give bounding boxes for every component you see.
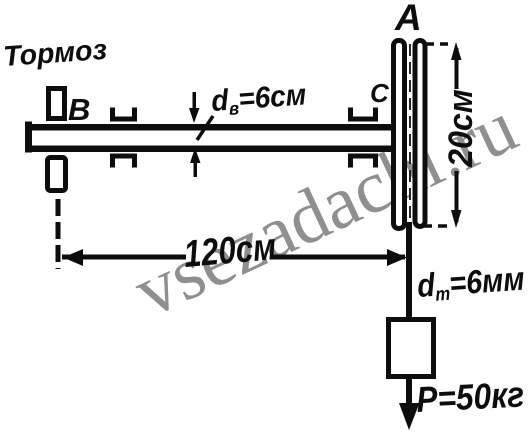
dim 20cm: bottom extension dash [423, 224, 448, 228]
load arrow shaft [406, 377, 412, 409]
brake pad lower [48, 158, 66, 191]
shaft diameter up arrow [194, 163, 198, 177]
bearing B upper bracket [113, 108, 135, 120]
load box [389, 320, 434, 377]
shaft top line [25, 124, 395, 131]
svg-text:120см: 120см [182, 226, 278, 275]
svg-text:20см: 20см [442, 89, 480, 168]
dim 20cm: top extension dash [425, 42, 448, 46]
pulley rim left [394, 41, 405, 229]
bearing B lower bracket [113, 156, 135, 168]
dim 120cm: right arrowhead [387, 249, 407, 266]
rope [406, 222, 412, 320]
dim 20cm: vertical dimension line [455, 48, 459, 89]
bearing C upper bracket [351, 108, 376, 120]
load arrow head [399, 403, 420, 430]
dim 20cm: bottom arrowhead [451, 210, 462, 228]
brake pad upper [49, 89, 65, 119]
dim 20cm: top arrowhead [451, 42, 462, 60]
shaft diameter down arrow [193, 92, 197, 112]
dim 120cm: left arrowhead [63, 249, 83, 266]
dim 120cm: left segment [62, 255, 186, 260]
shaft left end cap [25, 122, 32, 153]
shaft bottom line [25, 146, 395, 153]
svg-text:А: А [394, 0, 422, 38]
dim 120cm: dashed extension below brake [56, 199, 61, 269]
pulley axis dashed line [409, 44, 411, 224]
pulley rim right [415, 41, 425, 227]
svg-text:Р=50кг: Р=50кг [415, 375, 525, 421]
svg-text:В: В [68, 92, 90, 127]
bearing C lower bracket [351, 156, 376, 168]
svg-text:С: С [370, 78, 390, 108]
leader slash [197, 116, 213, 140]
dim 120cm: right segment [272, 255, 405, 260]
